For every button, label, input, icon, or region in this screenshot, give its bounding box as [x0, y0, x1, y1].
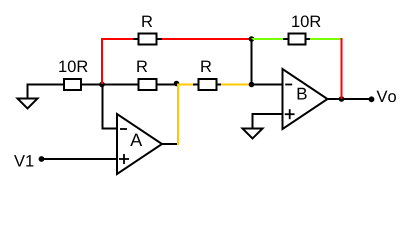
label R (middle resistor value) — [137, 61, 147, 72]
wire: green segment from node T to resistor 10R (top) — [252, 38, 285, 40]
label 10R (left resistor value) — [59, 60, 87, 72]
op-amp B — [283, 69, 328, 129]
wire: resistor 10R (left) to node A1 — [81, 84, 138, 86]
wire: op-amp A output stub — [161, 143, 178, 145]
resistor R (middle, A feedback input), box — [139, 79, 157, 90]
wire: red tip over node O — [341, 94, 343, 99]
resistor R (right, to B input), black leads and box — [193, 79, 222, 90]
resistor 10R (B feedback), black leads and box — [283, 34, 311, 45]
wire: op-amp B non-inverting input to ground — [253, 114, 284, 129]
node V1 terminal — [39, 156, 45, 162]
wire: red top rail left segment to resistor R (top) — [101, 38, 133, 40]
node T: junction of top rail and B- branch — [249, 36, 255, 42]
resistor 10R (left input), box — [64, 79, 81, 90]
wire: orange feedback riser from A output up to node A2 — [177, 85, 179, 146]
wire: red top rail from resistor R to node T — [162, 38, 252, 40]
node Vo terminal — [369, 96, 375, 102]
resistor R (top feedback), black leads and box — [133, 34, 163, 45]
wire: orange segment resistor R (right) to node B1 — [221, 84, 252, 86]
op-amp A — [117, 114, 162, 174]
wire: red drop from corner down to output node — [341, 38, 343, 99]
wire: node B1 to op-amp B inverting input — [252, 84, 284, 86]
node A1: junction at A inverting input branch — [99, 82, 105, 88]
wire: orange segment node A2 to resistor R (right) — [177, 84, 194, 86]
wire: V1 to op-amp A non-inverting input — [42, 158, 119, 160]
wire: green segment from 10R to output corner — [310, 38, 343, 40]
wire: red tip over node A1 — [101, 79, 103, 84]
ground (op-amp B reference) — [243, 129, 263, 139]
wire: riser from node B1 up to node T — [251, 39, 253, 85]
node A2: junction of A output feedback — [174, 81, 180, 87]
label Vo (output) — [377, 91, 396, 103]
wire: ground to resistor 10R (left) — [27, 84, 65, 86]
wire: op-amp B output to Vo — [327, 98, 372, 100]
label R (top resistor value) — [142, 16, 152, 27]
wire: red feedback riser from node A1 up to top rail — [101, 39, 103, 85]
node B1: junction below node T at B- input — [249, 82, 255, 88]
label V1 (input source) — [14, 155, 33, 166]
label R (right resistor value) — [201, 61, 211, 72]
wire: resistor R (middle) to node A2 — [157, 84, 177, 86]
wire: node A1 down and right to op-amp A inverting input — [103, 85, 119, 129]
label 10R (top-right resistor value) — [292, 15, 320, 27]
node O: junction of feedback drop and output — [339, 96, 345, 102]
ground (left input reference) — [18, 85, 38, 109]
